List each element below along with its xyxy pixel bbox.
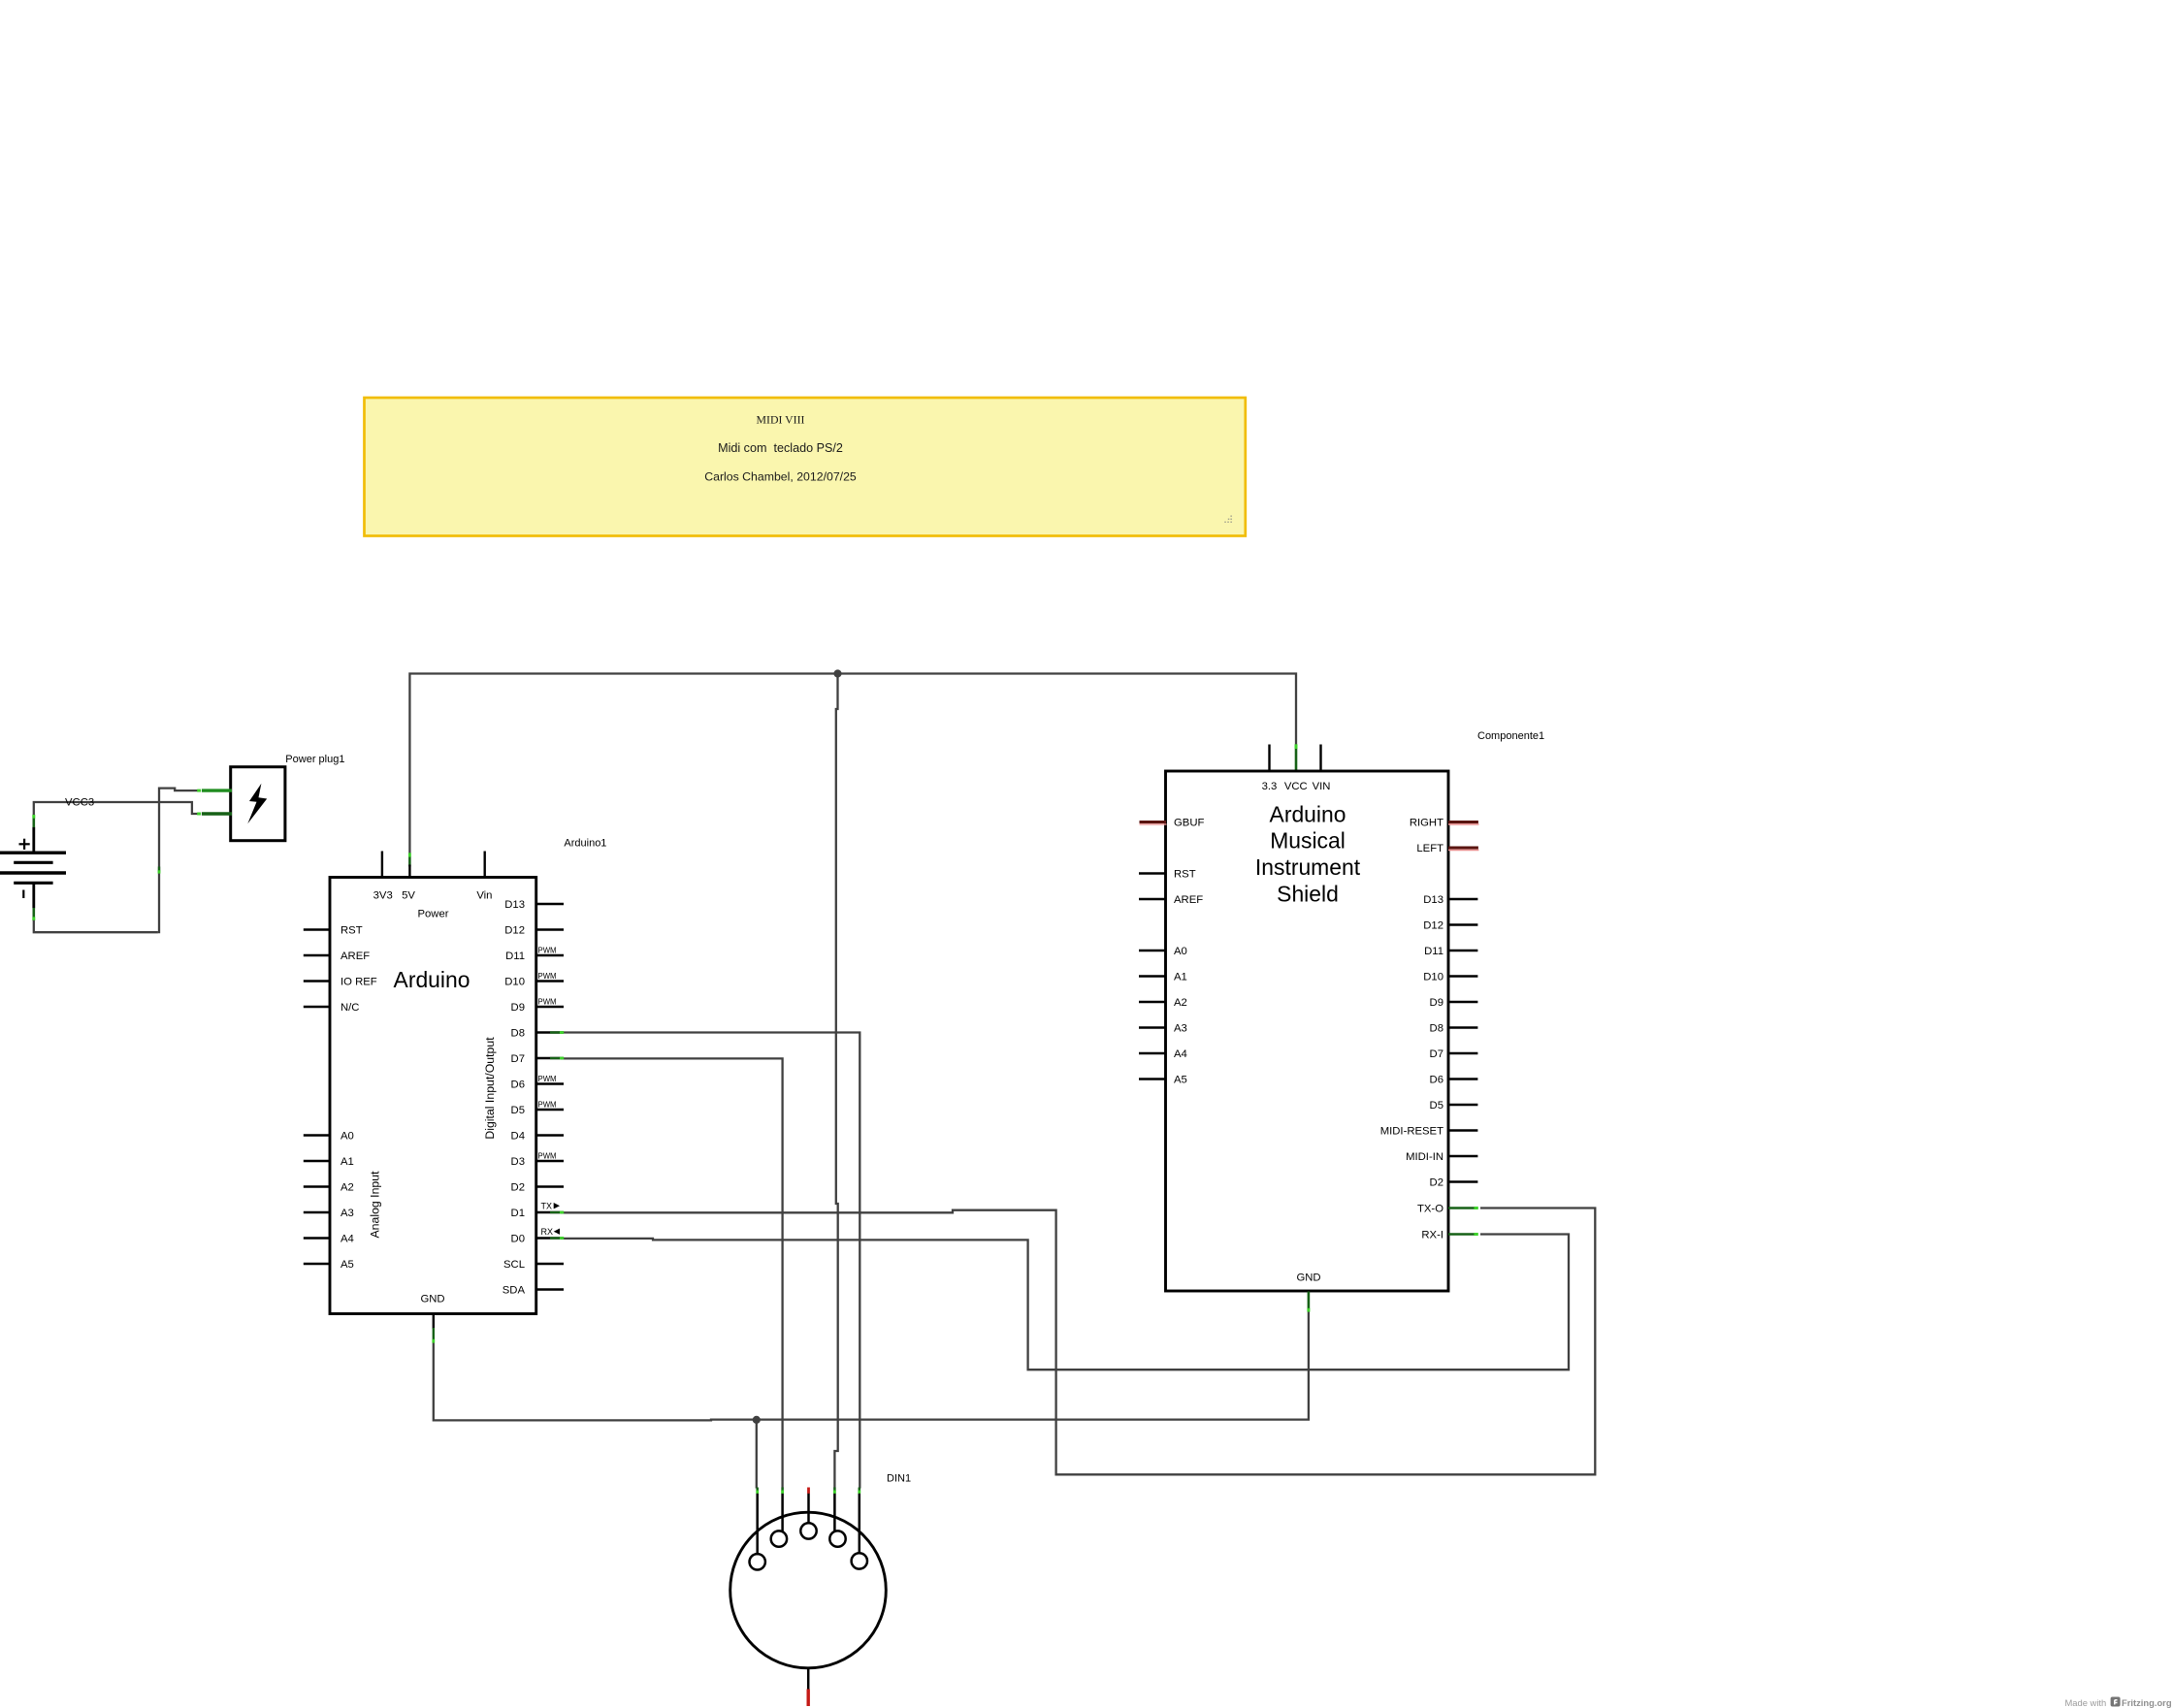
pin 3V3 [381,852,383,878]
pin A5 (Arduino left) [304,1263,330,1265]
svg-text:GBUF: GBUF [1174,817,1204,828]
pin D2 (Arduino right) [536,1185,564,1187]
svg-text:D5: D5 [1430,1100,1443,1112]
svg-text:3V3: 3V3 [373,889,393,901]
svg-text:D9: D9 [511,1002,525,1014]
junction top rail [833,669,841,677]
pin TX-O (shield right) [1448,1207,1475,1209]
svg-text:D13: D13 [504,899,525,911]
svg-text:Fritzing.org: Fritzing.org [2122,1697,2172,1708]
svg-text:AREF: AREF [341,951,370,962]
svg-text:A4: A4 [1174,1048,1187,1060]
note box MIDI VIII [365,398,1246,536]
green cap on shield VCC wire [1295,749,1298,772]
pin A5 (shield left) [1139,1078,1166,1080]
svg-text:PWM: PWM [538,1075,557,1083]
pin RIGHT (shield right) [1448,821,1478,823]
wire D7 to DIN pin2 [561,1058,783,1488]
svg-text:LEFT: LEFT [1416,843,1443,854]
battery plus sign [19,843,30,845]
svg-text:TX: TX [541,1202,553,1211]
DIN pin 2 [771,1531,787,1546]
svg-text:Midi com teclado PS/2: Midi com teclado PS/2 [718,441,843,455]
svg-text:D9: D9 [1430,997,1443,1009]
svg-text:D10: D10 [504,976,525,987]
pin RST (Arduino left) [304,928,330,930]
pin SDA (Arduino right) [536,1288,564,1290]
pin VIN [1319,745,1321,771]
svg-text:SDA: SDA [503,1284,526,1296]
pin D6 (Arduino right) [536,1082,564,1084]
svg-text:Componente1: Componente1 [1477,730,1544,742]
pin D2 (shield right) [1448,1180,1477,1182]
svg-text:D11: D11 [505,951,525,962]
wire VCC3 net: battery plus to power plug pin2 [34,802,200,815]
svg-text:Arduino1: Arduino1 [564,838,606,850]
svg-text:D3: D3 [511,1156,525,1168]
pin A4 (Arduino left) [304,1237,330,1239]
svg-text:D5: D5 [511,1105,525,1116]
pin A2 (shield left) [1139,1001,1166,1003]
pin D5 (Arduino right) [536,1109,564,1111]
svg-text:IO REF: IO REF [341,976,377,987]
svg-text:Power: Power [417,909,448,920]
svg-text:D2: D2 [1430,1176,1443,1188]
pin D12 (Arduino right) [536,928,564,930]
DIN pin 4 [829,1531,845,1546]
svg-text:TX-O: TX-O [1417,1203,1443,1214]
pin A1 (shield left) [1139,975,1166,977]
svg-text:3.3: 3.3 [1262,781,1278,792]
DIN connector DIN1 [730,1473,911,1707]
pin D1 (Arduino right) [536,1211,564,1213]
power plug Power plug1 [202,754,345,841]
pin A0 (Arduino left) [304,1134,330,1136]
pin N/C (Arduino left) [304,1006,330,1008]
wire rail junction down to DIN pin4 [834,674,837,1489]
svg-text:GND: GND [420,1294,444,1305]
DIN pin 1 [750,1554,765,1569]
svg-text:A5: A5 [1174,1074,1187,1085]
pin D12 (shield right) [1448,923,1477,925]
svg-text:Digital Input/Output: Digital Input/Output [483,1037,497,1140]
svg-text:D10: D10 [1423,971,1443,983]
svg-text:Instrument: Instrument [1255,854,1361,880]
svg-text:A2: A2 [1174,997,1187,1009]
pin A3 (Arduino left) [304,1211,330,1213]
svg-text:D8: D8 [1430,1022,1443,1034]
svg-text:Shield: Shield [1277,882,1339,907]
svg-text:Carlos Chambel, 2012/07/25: Carlos Chambel, 2012/07/25 [704,470,857,484]
svg-text:D1: D1 [511,1208,525,1219]
pin AREF (shield left) [1139,898,1166,900]
svg-text:A3: A3 [341,1208,354,1219]
svg-text:PWM: PWM [538,1152,557,1161]
svg-text:D7: D7 [511,1053,525,1065]
wire mid vertical up to power plug pin1 [159,789,199,934]
pin A0 (shield left) [1139,950,1166,951]
DIN pin 5 [852,1553,867,1568]
battery pin green indicators [32,818,35,827]
pin D6 (shield right) [1448,1078,1477,1080]
svg-text:VIN: VIN [1313,781,1331,792]
svg-text:A0: A0 [341,1130,354,1142]
pin A1 (Arduino left) [304,1160,330,1162]
svg-text:Musical: Musical [1270,828,1346,854]
pin GND bottom [433,1314,435,1329]
svg-text:GND: GND [1296,1273,1320,1284]
svg-text:N/C: N/C [341,1002,359,1014]
pin Vin [484,852,486,878]
pin D7 (Arduino right) [536,1057,564,1059]
svg-text:D13: D13 [1423,894,1443,906]
pin D9 (shield right) [1448,1001,1477,1003]
pin D5 (shield right) [1448,1104,1477,1106]
pin A3 (shield left) [1139,1026,1166,1028]
pin D0 (Arduino right) [536,1237,564,1239]
svg-text:D6: D6 [1430,1074,1443,1085]
wire D8 to DIN pin5 [561,1033,859,1489]
svg-text:VCC: VCC [1284,781,1308,792]
lightning bolt icon [247,784,267,824]
svg-text:RIGHT: RIGHT [1410,817,1443,828]
svg-text:A1: A1 [1174,971,1187,983]
svg-text:MIDI-RESET: MIDI-RESET [1380,1125,1443,1137]
pin MIDI-IN (shield right) [1448,1155,1477,1157]
battery VCC3 [0,815,66,920]
svg-text:A1: A1 [341,1156,354,1168]
junction GND rail DIN pin1 [753,1416,761,1424]
svg-text:D7: D7 [1430,1048,1443,1060]
pin 3.3 [1268,745,1270,771]
svg-text:RX: RX [541,1227,554,1237]
pin MIDI-RESET (shield right) [1448,1129,1477,1131]
pin AREF (Arduino left) [304,954,330,956]
pin LEFT (shield right) [1448,847,1478,850]
svg-text:PWM: PWM [538,998,557,1007]
svg-text:D8: D8 [511,1027,525,1039]
svg-text:PWM: PWM [538,972,557,981]
svg-text:D2: D2 [511,1181,525,1193]
svg-text:D0: D0 [511,1233,525,1244]
pin D11 (shield right) [1448,950,1477,951]
wire D0 RX to shield RX-I [561,1235,1569,1370]
DIN bottom pin [807,1668,810,1690]
pin D13 (shield right) [1448,898,1477,900]
pin GND shield bottom [1308,1292,1311,1309]
pin D13 (Arduino right) [536,903,564,905]
Arduino Uno Arduino1 [304,838,607,1343]
power plug pin 1 [202,789,232,791]
svg-text:RST: RST [341,924,363,936]
Arduino Musical Instrument Shield Componente1 [1139,730,1544,1312]
wire D1 TX to shield TX-O [561,1208,1595,1475]
green cap on 5V wire [408,856,410,867]
svg-text:DIN1: DIN1 [887,1473,911,1485]
svg-text:Arduino: Arduino [394,967,470,992]
pin D7 (shield right) [1448,1052,1477,1054]
pin D3 (Arduino right) [536,1160,564,1162]
svg-text:Vin: Vin [476,889,492,901]
svg-text:A2: A2 [341,1181,354,1193]
pin 5V [408,865,410,878]
svg-text:5V: 5V [402,889,415,901]
DIN pin 3 [800,1523,816,1538]
wire battery minus to mid vertical [34,920,158,932]
wire junction down to DIN pin1 [756,1420,758,1489]
pin D4 (Arduino right) [536,1134,564,1136]
svg-text:D4: D4 [511,1130,525,1142]
pin D10 (Arduino right) [536,980,564,982]
pin D10 (shield right) [1448,975,1477,977]
svg-text:AREF: AREF [1174,894,1203,906]
power plug pin 2 [202,812,232,815]
pin IO REF (Arduino left) [304,980,330,982]
battery minus sign [22,890,24,899]
svg-text:SCL: SCL [503,1259,525,1271]
svg-text:Made with: Made with [2065,1697,2107,1708]
pin GBUF (shield left) [1140,821,1167,823]
svg-text:MIDI VIII: MIDI VIII [757,412,805,426]
pin RX-I (shield right) [1448,1233,1475,1236]
pin A2 (Arduino left) [304,1185,330,1187]
pin D8 (Arduino right) [536,1031,564,1033]
svg-text:MIDI-IN: MIDI-IN [1406,1151,1443,1163]
pin RST (shield left) [1139,872,1166,874]
svg-text:PWM: PWM [538,947,557,955]
svg-text:Analog Input: Analog Input [368,1171,381,1239]
wire 5V rail: Arduino 5V to shield VCC [409,674,1296,867]
svg-text:A0: A0 [1174,946,1187,957]
svg-text:A4: A4 [341,1233,354,1244]
pin D8 (shield right) [1448,1026,1477,1028]
svg-text:D12: D12 [1423,919,1443,931]
pin D9 (Arduino right) [536,1006,564,1008]
svg-text:RST: RST [1174,868,1196,880]
svg-text:Power plug1: Power plug1 [285,754,344,765]
svg-text:Arduino: Arduino [1270,801,1346,826]
svg-text:RX-I: RX-I [1421,1229,1443,1241]
svg-text:PWM: PWM [538,1101,557,1110]
pin SCL (Arduino right) [536,1263,564,1265]
wire GND net: Arduino GND to shield GND [434,1311,1309,1420]
svg-text:VCC3: VCC3 [65,797,94,809]
pin A4 (shield left) [1139,1052,1166,1054]
svg-text:D12: D12 [504,924,525,936]
watermark Made with Fritzing.org [2065,1697,2172,1708]
svg-text:A5: A5 [341,1259,354,1271]
svg-text:D6: D6 [511,1079,525,1090]
svg-text:A3: A3 [1174,1022,1187,1034]
svg-text:D11: D11 [1424,946,1443,957]
pin D11 (Arduino right) [536,954,564,956]
